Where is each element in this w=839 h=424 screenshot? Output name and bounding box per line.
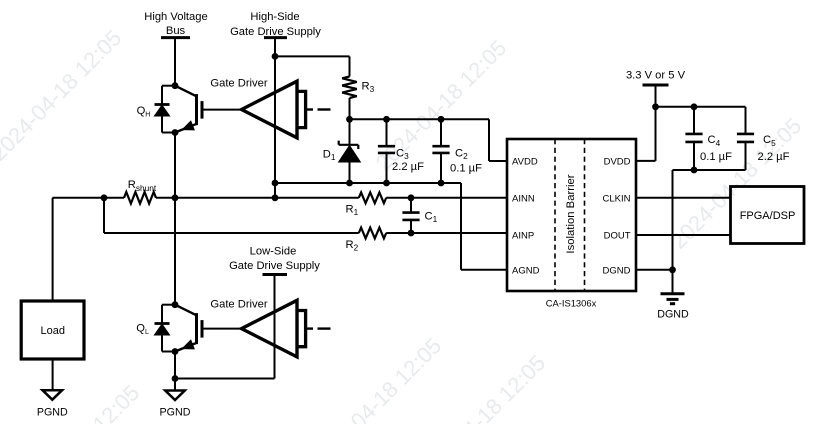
svg-text:DGND: DGND: [657, 308, 689, 320]
svg-text:High Voltage: High Voltage: [144, 11, 207, 23]
svg-text:CLKIN: CLKIN: [603, 193, 631, 204]
svg-text:Gate Driver: Gate Driver: [210, 298, 267, 310]
svg-text:PGND: PGND: [37, 406, 68, 418]
svg-text:AINN: AINN: [512, 193, 535, 204]
svg-text:Gate Driver: Gate Driver: [210, 78, 267, 90]
svg-text:AGND: AGND: [512, 265, 540, 276]
svg-text:2.2 µF: 2.2 µF: [758, 151, 790, 163]
svg-text:Gate Drive Supply: Gate Drive Supply: [229, 260, 320, 272]
svg-text:3.3 V or 5 V: 3.3 V or 5 V: [626, 69, 686, 81]
svg-text:DVDD: DVDD: [604, 157, 631, 168]
svg-text:Isolation Barrier: Isolation Barrier: [565, 174, 577, 253]
svg-text:DOUT: DOUT: [604, 231, 631, 242]
svg-text:CA-IS1306x: CA-IS1306x: [546, 298, 597, 309]
svg-text:Gate Drive Supply: Gate Drive Supply: [230, 26, 321, 38]
svg-text:Bus: Bus: [166, 25, 186, 37]
svg-text:2.2 µF: 2.2 µF: [392, 161, 424, 173]
svg-text:High-Side: High-Side: [250, 11, 299, 23]
svg-text:DGND: DGND: [603, 265, 631, 276]
svg-text:AINP: AINP: [512, 231, 534, 242]
svg-text:FPGA/DSP: FPGA/DSP: [740, 210, 796, 222]
svg-text:Low-Side: Low-Side: [250, 245, 297, 257]
svg-text:AVDD: AVDD: [512, 157, 538, 168]
svg-text:PGND: PGND: [160, 407, 191, 419]
svg-text:0.1 µF: 0.1 µF: [700, 151, 732, 163]
svg-text:Load: Load: [41, 325, 65, 337]
svg-text:0.1 µF: 0.1 µF: [450, 162, 482, 174]
